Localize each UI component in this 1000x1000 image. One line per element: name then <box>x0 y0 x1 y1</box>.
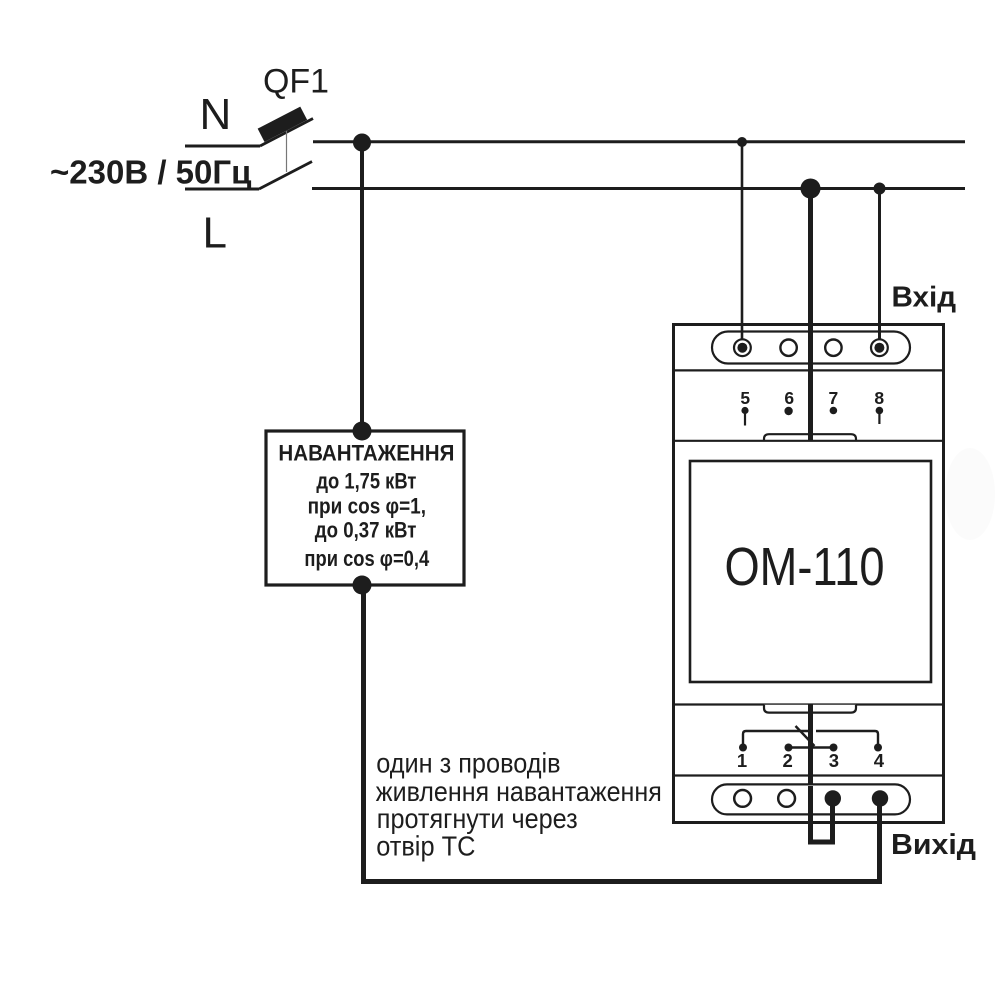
svg-text:при cos φ=0,4: при cos φ=0,4 <box>304 546 429 571</box>
svg-text:один з проводів: один з проводів <box>376 747 560 778</box>
svg-text:~230В / 50Гц: ~230В / 50Гц <box>50 154 251 191</box>
svg-text:отвір ТС: отвір ТС <box>376 831 475 862</box>
svg-text:5: 5 <box>740 388 750 408</box>
svg-text:3: 3 <box>829 750 839 771</box>
svg-text:QF1: QF1 <box>263 63 329 101</box>
svg-text:8: 8 <box>874 388 884 408</box>
svg-text:НАВАНТАЖЕННЯ: НАВАНТАЖЕННЯ <box>278 441 454 466</box>
svg-text:7: 7 <box>829 388 839 408</box>
svg-text:N: N <box>200 90 232 139</box>
svg-text:6: 6 <box>784 388 794 408</box>
svg-text:2: 2 <box>782 750 792 771</box>
svg-text:при cos φ=1,: при cos φ=1, <box>308 493 426 518</box>
svg-text:протягнути через: протягнути через <box>377 803 578 834</box>
svg-text:1: 1 <box>737 750 747 771</box>
svg-text:ОМ-110: ОМ-110 <box>725 537 885 597</box>
svg-text:Вхід: Вхід <box>892 281 957 313</box>
svg-text:L: L <box>203 209 227 258</box>
svg-text:4: 4 <box>874 750 885 771</box>
svg-text:до 0,37 кВт: до 0,37 кВт <box>315 518 417 543</box>
svg-text:Вихід: Вихід <box>891 829 976 861</box>
svg-text:до 1,75 кВт: до 1,75 кВт <box>316 469 416 494</box>
